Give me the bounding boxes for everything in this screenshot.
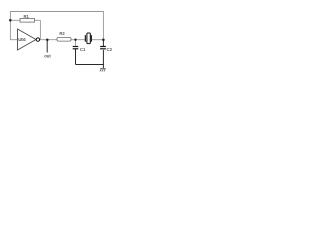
svg-text:out: out (44, 53, 51, 58)
svg-text:R1: R1 (24, 14, 30, 19)
svg-text:R2: R2 (59, 31, 65, 36)
svg-text:C1: C1 (80, 47, 86, 52)
svg-text:C2: C2 (107, 47, 113, 52)
svg-text:U04: U04 (18, 37, 26, 42)
